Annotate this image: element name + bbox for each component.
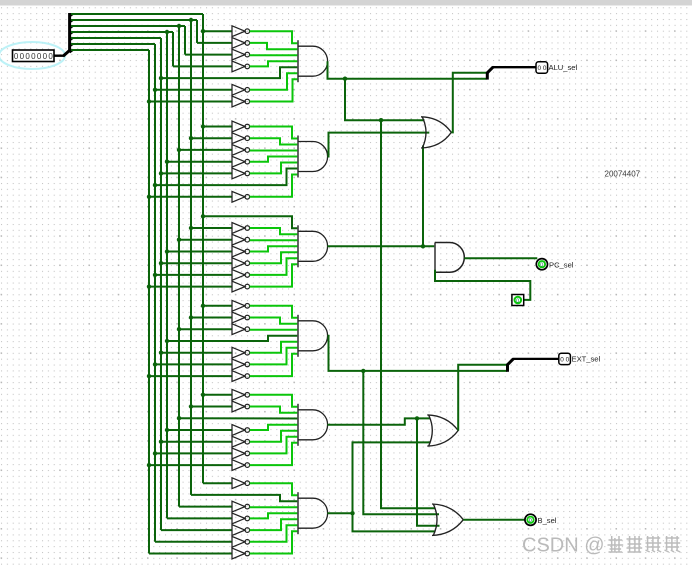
wire w3 bit4 horizontal <box>71 25 185 27</box>
wire OR1 bottom input vertical <box>422 146 424 247</box>
wire inverter output g1r2 <box>250 54 298 56</box>
wire inverter output g1r3 <box>250 61 298 66</box>
junction tap <box>189 136 193 140</box>
inverter G3N3 <box>232 246 250 257</box>
wire tap to inverter g6r2 <box>179 506 232 508</box>
splitter leg bit 1 <box>70 44 73 47</box>
wire inverter output g3r2 <box>250 239 298 241</box>
junction tap <box>201 214 205 218</box>
wire inverter output g2r3 <box>250 157 298 162</box>
wire U1 branch down to OR1 <box>345 79 425 121</box>
inverter G6N4 <box>232 525 250 536</box>
wire tap to inverter g3r2 <box>179 239 232 241</box>
svg-text:0: 0 <box>43 52 48 61</box>
wire U6 up to OR2 <box>353 442 431 513</box>
svg-text:0: 0 <box>14 52 19 61</box>
splitter SP1 spine <box>63 13 70 56</box>
wire w6 bit1 horizontal <box>71 43 155 45</box>
inverter G3N6 <box>232 281 250 292</box>
svg-text:0: 0 <box>516 298 519 304</box>
svg-text:0: 0 <box>37 52 42 61</box>
junction tap <box>147 99 151 103</box>
wire inverter output g5r0 <box>250 395 298 407</box>
wire OR2 output up <box>458 365 507 431</box>
wire inverter output g4r0 <box>250 306 298 318</box>
wire tap to inverter g1r6 <box>149 101 232 103</box>
wire tap to inverter g2r1 <box>191 137 232 139</box>
inverter G4N2 <box>232 324 250 335</box>
inverter G1N5 <box>232 84 250 95</box>
wire inverter output g4r2 <box>250 329 298 331</box>
junction tap <box>159 76 163 80</box>
junction tap <box>201 304 205 308</box>
wire inverter output g5r1 <box>250 407 298 413</box>
inverter G5N5 <box>232 448 250 459</box>
junction tap <box>201 29 205 33</box>
wire inverter output g1r6 <box>250 79 298 101</box>
wire w4 staircase vertical <box>172 32 174 66</box>
wire w1 bit6 horizontal <box>71 13 203 15</box>
wire tap to inverter g2r0 <box>203 126 232 128</box>
bus vertical line x=149 <box>148 50 150 554</box>
wire AND U1 output elbow <box>328 61 487 78</box>
wire tap to inverter g2r6 <box>149 196 232 198</box>
wire tap to inverter g4r1 <box>191 317 232 319</box>
junction U1 output <box>343 77 347 81</box>
wire tap to inverter g5r5 <box>155 452 232 454</box>
wire inverter output g3r1 <box>250 228 298 234</box>
bus vertical D to OR3 <box>417 418 440 525</box>
junction U6 branch <box>350 511 354 515</box>
junction tap <box>201 124 205 128</box>
junction tap <box>165 249 169 253</box>
junction OR1 input branch <box>379 118 383 122</box>
junction tap <box>147 195 151 199</box>
wire tap to inverter g4r6 <box>149 375 232 377</box>
inverter G1N0 <box>232 26 250 37</box>
wire inverter output g6r3 <box>250 513 298 518</box>
inverter G5N0 <box>232 389 250 400</box>
inverter G4N6 <box>232 371 250 382</box>
wire inverter output g1r0 <box>250 31 298 43</box>
wire OR1 output up <box>451 73 486 133</box>
svg-text:0: 0 <box>31 52 36 61</box>
wire tap to inverter g3r6 <box>149 286 232 288</box>
wire tap to inverter g5r4 <box>161 441 232 443</box>
wire w4 to inverter G1N4 <box>173 65 232 67</box>
AND gate U1 <box>298 40 328 82</box>
svg-text:0: 0 <box>25 52 30 61</box>
wire uninverted row g2 <box>155 169 298 186</box>
inverter G4N0 <box>232 300 250 311</box>
output pin EXT_sel <box>559 353 571 364</box>
wire inverter output g2r0 <box>250 127 298 139</box>
svg-text:0: 0 <box>20 52 25 61</box>
wire tap to inverter g3r1 <box>191 227 232 229</box>
input pin IN[6:0] value 0000000 <box>13 50 55 62</box>
AND gate U2 <box>298 136 328 178</box>
junction w2 split <box>189 18 193 22</box>
junction w3 split <box>177 24 181 28</box>
inverter G3N2 <box>232 234 250 245</box>
AND gate U3 <box>298 225 328 267</box>
AND gate U5 <box>298 404 328 446</box>
wire inverter output g4r6 <box>250 354 298 376</box>
wire w2 to inverter G1N2 <box>197 42 232 44</box>
inverter G4N1 <box>232 312 250 323</box>
inverter G3N4 <box>232 258 250 269</box>
svg-text:0: 0 <box>540 263 543 269</box>
wire tap to inverter g3r5 <box>155 274 232 276</box>
output pin ALU_sel <box>536 62 548 73</box>
wire w2 staircase vertical <box>196 20 198 43</box>
wire tap to inverter g4r2 <box>179 328 232 330</box>
junction U5 branch <box>415 416 419 420</box>
wire U6 down to OR3 <box>353 513 436 531</box>
wire tap to inverter g5r6 <box>149 464 232 466</box>
inverter G2N3 <box>232 156 250 167</box>
wire uninverted row g1 <box>161 67 298 78</box>
OR gate OR1 <box>421 117 451 148</box>
wire inverter output g3r5 <box>250 258 298 275</box>
junction tap <box>189 315 193 319</box>
inverter G4N4 <box>232 347 250 358</box>
wire inverter output g2r4 <box>250 163 298 174</box>
OR gate OR2 <box>427 415 458 446</box>
selection halo around input pin <box>0 42 65 69</box>
wire U7 output <box>464 257 537 259</box>
wire tap to inverter g2r2 <box>179 149 232 151</box>
wire inverter output g2r1 <box>250 138 298 144</box>
splitter leg bit 0 <box>70 50 73 53</box>
junction tap <box>147 463 151 467</box>
ALU splitter <box>487 67 493 80</box>
wire tap to inverter g6r5 <box>155 541 232 543</box>
wire inverter output g2r6 <box>250 175 298 197</box>
inverter G3N1 <box>232 223 250 234</box>
wire inverter output g6r4 <box>250 519 298 530</box>
wire AND U3 output <box>328 245 436 247</box>
junction tap <box>165 160 169 164</box>
input pin unnamed <box>512 295 524 306</box>
junction tap <box>147 374 151 378</box>
splitter leg bit 2 <box>70 38 73 41</box>
OR gate OR3 <box>432 504 463 535</box>
wire tap to inverter g4r0 <box>203 305 232 307</box>
wire tap to inverter g4r4 <box>161 352 232 354</box>
inverter G1N6 <box>232 96 250 107</box>
junction tap <box>165 428 169 432</box>
wire uninverted row g6 <box>191 495 298 501</box>
wire inverter output g5r4 <box>250 431 298 442</box>
wire inverter output g6r5 <box>250 525 298 542</box>
bus wire pin to splitter <box>55 55 64 57</box>
splitter leg bit 5 <box>70 20 73 23</box>
bus vertical line x=191 <box>190 20 192 495</box>
wire tap to inverter g6r0 <box>203 482 232 484</box>
output pin B_sel <box>525 514 536 525</box>
watermark glyph <box>627 536 643 552</box>
svg-text:0 0: 0 0 <box>538 65 547 72</box>
wire inverter output g6r2 <box>250 506 298 508</box>
watermark glyph <box>608 536 624 552</box>
junction U3 to OR1 <box>421 244 425 248</box>
wire OR3 output <box>463 519 525 521</box>
splitter leg bit 3 <box>70 32 73 35</box>
junction tap <box>177 327 181 331</box>
bus vertical line x=179 <box>178 26 180 507</box>
wire inverter output g6r6 <box>250 531 298 553</box>
wire uninverted row g4 <box>167 336 298 341</box>
junction tap <box>159 440 163 444</box>
junction tap <box>159 171 163 175</box>
inverter G1N1 <box>232 38 250 49</box>
wire tap to inverter g5r0 <box>203 394 232 396</box>
AND gate U4 <box>298 315 328 357</box>
wire inverter output g3r3 <box>250 246 298 251</box>
wire tap to inverter g3r4 <box>161 262 232 264</box>
output pin PC_sel <box>536 259 547 270</box>
junction tap <box>153 362 157 366</box>
junction tap <box>147 284 151 288</box>
bus vertical C to OR3 <box>381 120 435 508</box>
wire w3 to inverter G1N3 <box>185 54 232 56</box>
junction tap <box>177 238 181 242</box>
inverter G5N6 <box>232 460 250 471</box>
junction tap <box>201 393 205 397</box>
wire w4 bit3 horizontal <box>71 31 173 33</box>
splitter leg bit 6 <box>70 14 73 17</box>
wire inverter output g1r5 <box>250 73 298 90</box>
junction tap <box>159 351 163 355</box>
wire inverter output g5r3 <box>250 425 298 430</box>
junction tap <box>153 451 157 455</box>
wire inverter output g1r1 <box>250 43 298 49</box>
inverter G2N1 <box>232 133 250 144</box>
wire uninverted row g5 <box>179 417 298 419</box>
svg-text:B_sel: B_sel <box>538 516 557 525</box>
wire AND U2 output elbow <box>328 133 430 157</box>
inverter G6N3 <box>232 513 250 524</box>
splitter leg bit 4 <box>70 26 73 29</box>
AND gate U7 <box>435 243 464 273</box>
inverter G5N1 <box>232 401 250 412</box>
bus vertical line x=161 <box>160 38 162 530</box>
bus wire to EXT_sel pin <box>513 358 559 360</box>
wire tap to inverter g6r3 <box>167 517 232 519</box>
wire inverter output g4r5 <box>250 348 298 365</box>
wire inverter output g6r0 <box>250 483 298 495</box>
junction tap <box>177 416 181 420</box>
wire w5 bit2 horizontal <box>71 37 161 39</box>
inverter G4N5 <box>232 359 250 370</box>
inverter G2N6 <box>232 191 250 202</box>
bus vertical line x=203 <box>202 14 204 483</box>
junction tap <box>153 273 157 277</box>
wire AND U6 output <box>328 512 353 514</box>
inverter G2N4 <box>232 168 250 179</box>
bus wire to ALU_sel pin <box>493 66 537 68</box>
wire inverter output g3r6 <box>250 264 298 286</box>
wire inverter output g5r5 <box>250 437 298 454</box>
wire AND U5 output elbow <box>328 418 431 424</box>
junction tap <box>159 261 163 265</box>
svg-text:0 0: 0 0 <box>560 357 569 364</box>
wire uninverted row g3 <box>203 216 298 228</box>
svg-text:EXT_sel: EXT_sel <box>572 355 601 364</box>
bus vertical line x=155 <box>154 44 156 542</box>
svg-text:0: 0 <box>529 518 532 524</box>
wire inverter output g3r4 <box>250 252 298 263</box>
watermark glyph <box>646 536 662 552</box>
inverter G2N0 <box>232 121 250 132</box>
bus vertical line x=167 <box>166 32 168 518</box>
junction tap <box>189 226 193 230</box>
wire tap to inverter g2r3 <box>167 161 232 163</box>
wire tap to inverter g1r0 <box>203 30 232 32</box>
inverter G3N5 <box>232 270 250 281</box>
wire tap to inverter g1r5 <box>155 89 232 91</box>
junction U4 branch <box>361 369 365 373</box>
wire input pin to U7 <box>435 270 530 300</box>
wire w2 bit5 horizontal <box>71 19 197 21</box>
inverter G5N4 <box>232 436 250 447</box>
wire inverter output g5r6 <box>250 443 298 465</box>
wire inverter output g2r2 <box>250 150 298 152</box>
bus vertical B to OR3 <box>363 371 439 514</box>
svg-text:0: 0 <box>48 52 53 61</box>
svg-text:ALU_sel: ALU_sel <box>549 63 578 72</box>
wire tap to inverter g5r1 <box>191 406 232 408</box>
inverter G6N6 <box>232 548 250 559</box>
inverter G1N2 <box>232 49 250 60</box>
junction w4 split <box>165 30 169 34</box>
junction tap <box>177 148 181 152</box>
inverter G5N3 <box>232 425 250 436</box>
junction tap <box>153 88 157 92</box>
wire w3 staircase vertical <box>184 26 186 55</box>
wire tap to inverter g6r4 <box>161 529 232 531</box>
junction tap <box>153 183 157 187</box>
wire tap to inverter g6r6 <box>149 553 232 555</box>
inverter G2N2 <box>232 145 250 156</box>
junction tap <box>165 339 169 343</box>
EXT splitter <box>507 359 514 372</box>
wire tap to inverter g2r4 <box>161 172 232 174</box>
AND gate U6 <box>298 492 328 534</box>
wire inverter output g4r4 <box>250 342 298 353</box>
wire tap to inverter g5r3 <box>167 429 232 431</box>
inverter G6N5 <box>232 536 250 547</box>
wire AND U4 output elbow <box>328 336 507 371</box>
junction tap <box>189 404 193 408</box>
svg-text:PC_sel: PC_sel <box>549 261 574 270</box>
inverter G6N0 <box>232 478 250 489</box>
wire w7 bit0 horizontal <box>71 49 149 51</box>
window top border strip <box>0 0 692 6</box>
wire tap to inverter g3r3 <box>167 251 232 253</box>
svg-text:CSDN @: CSDN @ <box>522 535 605 557</box>
inverter G6N2 <box>232 501 250 512</box>
wire inverter output g4r1 <box>250 318 298 324</box>
svg-text:20074407: 20074407 <box>605 170 641 179</box>
wire tap to inverter g4r5 <box>155 363 232 365</box>
inverter G1N3 <box>232 61 250 72</box>
watermark glyph <box>665 536 681 552</box>
